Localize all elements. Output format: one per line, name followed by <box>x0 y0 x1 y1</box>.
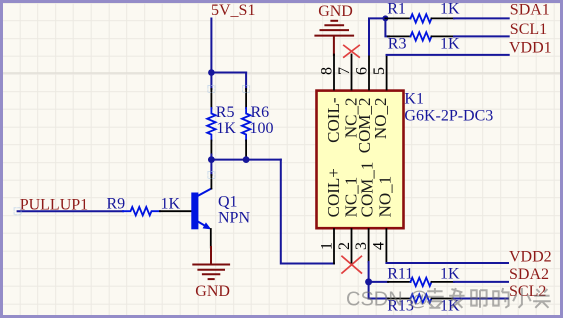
node junction at 5V rail <box>208 69 215 76</box>
wire COM_2 riser <box>369 18 385 54</box>
wire node down to R13 row <box>369 282 388 299</box>
pin 3 COM_1 <box>368 229 370 262</box>
wire PULLUP1 <box>18 210 123 212</box>
wire R5 bottom to collector node <box>210 155 212 176</box>
node junction R6 bottom <box>243 156 250 163</box>
pin 7 NC_2 <box>351 55 353 90</box>
wire COM_1 drop <box>368 262 370 282</box>
no-ERC marker pin 7 <box>344 45 359 57</box>
wire R11 to SDA2 <box>454 281 508 283</box>
wire node to R11 <box>369 281 388 283</box>
relay K1 body <box>317 91 404 229</box>
resistor R11 <box>387 265 460 286</box>
ground relay COIL- <box>315 21 353 55</box>
wire R13 to SCL2 <box>454 298 508 300</box>
resistor R1 <box>385 1 460 23</box>
wire NO_2 to VDD1 <box>387 54 509 56</box>
wire 5V rail horizontal <box>211 72 246 74</box>
pin 6 COM_2 <box>368 55 370 90</box>
ground Q1 emitter <box>193 247 229 279</box>
resistor R3 <box>388 32 460 52</box>
resistor R6 <box>242 89 274 156</box>
node junction COM_1 <box>365 278 372 285</box>
wire R3 to SCL1 <box>454 35 509 37</box>
resistor R5 <box>207 89 236 155</box>
wire emitter pin <box>210 229 212 248</box>
node junction collector <box>208 156 215 163</box>
pin 2 NC_1 <box>351 229 353 263</box>
watermark CJK glyphs <box>426 288 551 308</box>
wire 5V_S1 vertical <box>210 19 212 90</box>
major grid line <box>0 72 563 74</box>
watermark CSDN <box>346 289 429 311</box>
no-ERC marker pin 2 <box>342 256 361 273</box>
pin 5 NO_2 <box>386 55 388 90</box>
wire to R6 top <box>245 73 247 90</box>
pin 1 COIL+ <box>333 229 335 264</box>
hotspot markers <box>14 86 250 215</box>
wire collector rail horizontal <box>211 159 280 161</box>
pin 8 COIL- <box>333 55 335 90</box>
wire collector pin <box>210 175 212 189</box>
wire base pin <box>160 210 192 212</box>
node junction R1/R3 <box>382 15 388 21</box>
wire down to relay pin1 <box>281 160 334 264</box>
wire R1 to SDA1 <box>454 17 509 19</box>
wire NO_1 to VDD2 <box>386 262 508 264</box>
transistor Q1 <box>191 189 250 230</box>
resistor R13 <box>387 294 460 314</box>
resistor R9 <box>107 195 181 215</box>
pin 4 NO_1 <box>385 229 387 263</box>
wire node to R3 row <box>385 18 389 36</box>
